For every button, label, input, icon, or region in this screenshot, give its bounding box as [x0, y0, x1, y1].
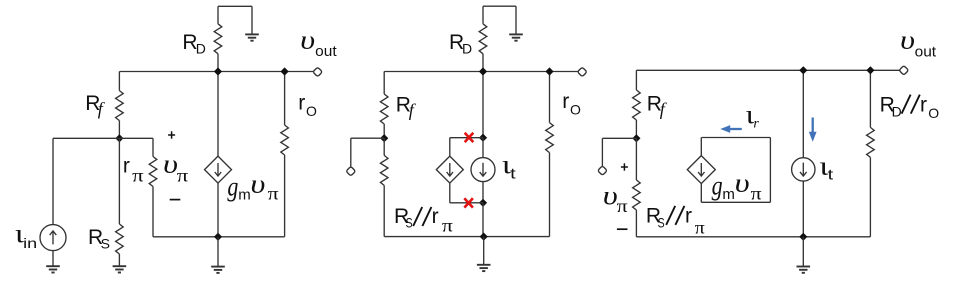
- wire box bottom right: [701, 201, 770, 203]
- resistor R_S left: [116, 224, 124, 254]
- wire r_pi top stub: [152, 138, 154, 156]
- wire Rs-rpi bottom stub middle: [383, 185, 385, 236]
- current source i_in: [40, 225, 66, 251]
- wire i_t top stub right: [802, 70, 804, 157]
- svg-text:O: O: [306, 103, 317, 119]
- terminal v_out right: [899, 65, 909, 75]
- wire box right edge: [769, 138, 771, 203]
- svg-text:υ: υ: [900, 26, 915, 55]
- wire input drop right: [601, 138, 603, 166]
- wire gm loop bottom middle: [450, 202, 483, 204]
- wire Rs-rpi top stub right: [635, 138, 637, 180]
- wire R_D ground horizontal middle: [483, 5, 516, 7]
- wire gm loop bottom drop middle: [449, 183, 451, 203]
- wire r_O top stub middle: [549, 72, 551, 123]
- label r_O left: [298, 91, 317, 119]
- resistor R_D middle: [479, 24, 487, 54]
- wire gm top stub left: [217, 72, 219, 157]
- wire box left top segment: [700, 138, 702, 156]
- current source i_t middle: [471, 158, 495, 182]
- label R_f middle: [396, 94, 417, 120]
- svg-text:g: g: [227, 171, 238, 201]
- label R_S parallel r_pi right: [646, 204, 705, 237]
- resistor r_O middle: [546, 123, 554, 153]
- label v_pi right: [603, 181, 628, 216]
- label i_t middle: [502, 150, 517, 182]
- wire R_S top stub left: [118, 138, 120, 224]
- svg-text:m: m: [238, 187, 251, 204]
- resistor R_f middle: [380, 94, 388, 124]
- slashes middle label: [413, 207, 431, 226]
- wire gm loop top middle: [450, 137, 483, 139]
- svg-text:υ: υ: [300, 26, 315, 55]
- wire center bottom middle: [482, 203, 484, 237]
- wire bottom rail left circuit: [153, 236, 285, 238]
- svg-text:m: m: [722, 186, 735, 203]
- wire r_pi bottom stub: [152, 187, 154, 237]
- terminal v_out left: [313, 67, 323, 77]
- node X bottom middle: [479, 199, 487, 207]
- node X top middle: [479, 134, 487, 142]
- svg-text:S: S: [658, 215, 665, 231]
- arrow i_t blue: [809, 118, 817, 142]
- label r_pi: [123, 155, 144, 186]
- wire R_f bottom stub right: [635, 120, 637, 138]
- label R_f left: [85, 92, 106, 119]
- ground R_S left: [113, 266, 127, 272]
- wire R_D bottom stub middle: [482, 54, 484, 72]
- wire center top middle: [482, 72, 484, 138]
- wire ground drop left R_D: [251, 6, 253, 34]
- svg-text:υ: υ: [735, 168, 750, 197]
- resistor R_D left: [214, 24, 222, 54]
- wire top rail left circuit: [119, 71, 313, 73]
- resistor r_pi: [149, 157, 157, 187]
- svg-text:r: r: [920, 94, 927, 117]
- wire box left bottom segment: [700, 184, 702, 203]
- ground i_in: [46, 266, 60, 272]
- red X bottom middle: [464, 198, 473, 207]
- node bottom i_t right: [799, 233, 807, 241]
- svg-text:out: out: [315, 43, 337, 60]
- ground bottom right circuit: [797, 267, 811, 273]
- label R_D parallel r_O right: [880, 94, 940, 121]
- dependent source gm right: [687, 156, 715, 184]
- svg-text:S: S: [406, 214, 413, 230]
- wire r_O bottom stub left: [284, 155, 286, 237]
- minus v_pi right: [617, 228, 628, 230]
- wire input horizontal middle: [351, 137, 384, 139]
- wire RDrO top stub right: [869, 70, 871, 127]
- svg-text:D: D: [196, 41, 206, 57]
- resistor R_S//r_pi right: [633, 180, 641, 210]
- wire i_in bottom stub: [52, 251, 54, 267]
- wire bottom rail right circuit: [636, 236, 870, 238]
- label R_D middle: [449, 31, 472, 57]
- wire bottom rail middle circuit: [384, 236, 549, 238]
- wire gm bottom stub left: [217, 183, 219, 237]
- wire Rs-rpi top stub middle: [383, 138, 385, 155]
- ground bottom middle circuit: [477, 265, 491, 271]
- node top RDrO right: [866, 66, 874, 74]
- arrow i_r blue: [720, 125, 742, 133]
- label i_r: [746, 100, 760, 132]
- minus v_pi left: [170, 199, 181, 201]
- svg-text:υ: υ: [250, 170, 265, 199]
- wire R_D top stub middle: [482, 6, 484, 24]
- wire ground stem right: [802, 237, 804, 267]
- wire it circle to node middle: [482, 182, 484, 203]
- terminal input right: [598, 166, 608, 176]
- dependent source gm*v_pi left: [205, 156, 232, 183]
- wire r_O bottom stub middle: [549, 153, 551, 237]
- svg-text:π: π: [695, 217, 705, 237]
- wire top rail right circuit: [636, 69, 900, 71]
- dependent source gm middle: [436, 156, 463, 183]
- resistor R_f left: [116, 91, 124, 121]
- node top gm left: [214, 67, 222, 75]
- wire ground stem left circuit: [217, 237, 219, 267]
- red X top middle: [465, 133, 474, 142]
- wire R_D to ground horizontal left: [218, 5, 252, 7]
- wire input drop middle: [350, 138, 352, 167]
- svg-text:D: D: [892, 104, 902, 120]
- wire R_f top stub middle: [383, 72, 385, 95]
- svg-text:π: π: [268, 184, 279, 204]
- node top center middle: [479, 67, 487, 75]
- node bottom gm left: [214, 233, 222, 241]
- wire R_f top stub right: [635, 70, 637, 90]
- wire R_S bottom stub left: [118, 254, 120, 266]
- wire box top right: [701, 137, 770, 139]
- svg-text:r: r: [753, 117, 759, 132]
- node input middle: [380, 134, 388, 142]
- label i_t right: [819, 151, 834, 183]
- node top r_O middle: [545, 67, 553, 75]
- wire i_t bottom stub right: [802, 181, 804, 237]
- label gm v_pi right: [712, 168, 762, 203]
- current source i_t right: [792, 158, 815, 181]
- resistor R_D//r_O right: [867, 127, 875, 157]
- svg-text:out: out: [915, 44, 937, 61]
- slashes right RD label: [902, 95, 920, 114]
- resistor R_f right: [633, 90, 641, 120]
- wire R_f bottom stub middle: [383, 124, 385, 138]
- svg-text:π: π: [617, 196, 628, 216]
- terminal input middle: [346, 166, 356, 176]
- svg-text:in: in: [23, 235, 37, 251]
- label R_f right: [647, 92, 668, 119]
- wire input horizontal right: [602, 137, 636, 139]
- node bottom center middle: [480, 233, 488, 241]
- node top i_t right: [799, 66, 807, 74]
- plus v_pi left: [168, 131, 175, 138]
- ground bottom left circuit: [211, 267, 225, 273]
- label i_in: [15, 219, 37, 251]
- wire ground stem middle: [483, 237, 485, 265]
- label gm v_pi left: [227, 170, 278, 204]
- svg-text:S: S: [101, 236, 110, 252]
- wire center to it circle middle: [482, 138, 484, 158]
- wire R_D top stub left: [217, 6, 219, 24]
- resistor R_S//r_pi middle: [380, 155, 388, 185]
- svg-text:g: g: [712, 171, 723, 201]
- wire R_f bottom stub left: [118, 121, 120, 139]
- wire Rs-rpi bottom stub right: [635, 210, 637, 237]
- svg-text:π: π: [442, 216, 453, 236]
- svg-text:O: O: [928, 105, 939, 121]
- slashes right RS label: [666, 206, 684, 225]
- svg-text:r: r: [298, 91, 305, 114]
- svg-text:r: r: [432, 205, 439, 228]
- node input right: [632, 134, 640, 142]
- wire gm loop top drop middle: [449, 138, 451, 156]
- node top r_O left: [281, 67, 289, 75]
- ground top middle circuit: [509, 34, 523, 40]
- wire i_in top stub: [52, 138, 54, 224]
- node A left: [115, 134, 123, 142]
- label R_S parallel r_pi middle: [394, 205, 453, 236]
- ground top left circuit: [245, 34, 259, 40]
- label r_O middle: [562, 90, 581, 118]
- label v_out right: [900, 26, 937, 61]
- label v_out left: [300, 26, 337, 60]
- label R_D left: [182, 31, 206, 57]
- wire ground drop middle R_D: [515, 6, 517, 34]
- wire r_O top stub left: [284, 72, 286, 126]
- svg-text:π: π: [177, 165, 189, 185]
- wire RDrO bottom stub right: [869, 157, 871, 236]
- wire R_D bottom stub left: [217, 54, 219, 72]
- svg-text:D: D: [462, 41, 472, 57]
- resistor r_O left: [281, 125, 289, 155]
- svg-text:r: r: [123, 155, 130, 178]
- svg-text:r: r: [562, 90, 569, 113]
- svg-text:π: π: [751, 184, 762, 204]
- svg-text:π: π: [132, 166, 144, 186]
- svg-text:r: r: [685, 204, 692, 227]
- label v_pi left: [163, 150, 189, 186]
- wire R_f top stub left: [118, 72, 120, 91]
- plus v_pi right: [621, 163, 628, 170]
- label R_S left: [88, 226, 110, 252]
- svg-text:O: O: [570, 102, 581, 118]
- wire top rail middle circuit: [384, 71, 578, 73]
- wire input row left: [53, 137, 153, 139]
- terminal right middle: [577, 67, 587, 77]
